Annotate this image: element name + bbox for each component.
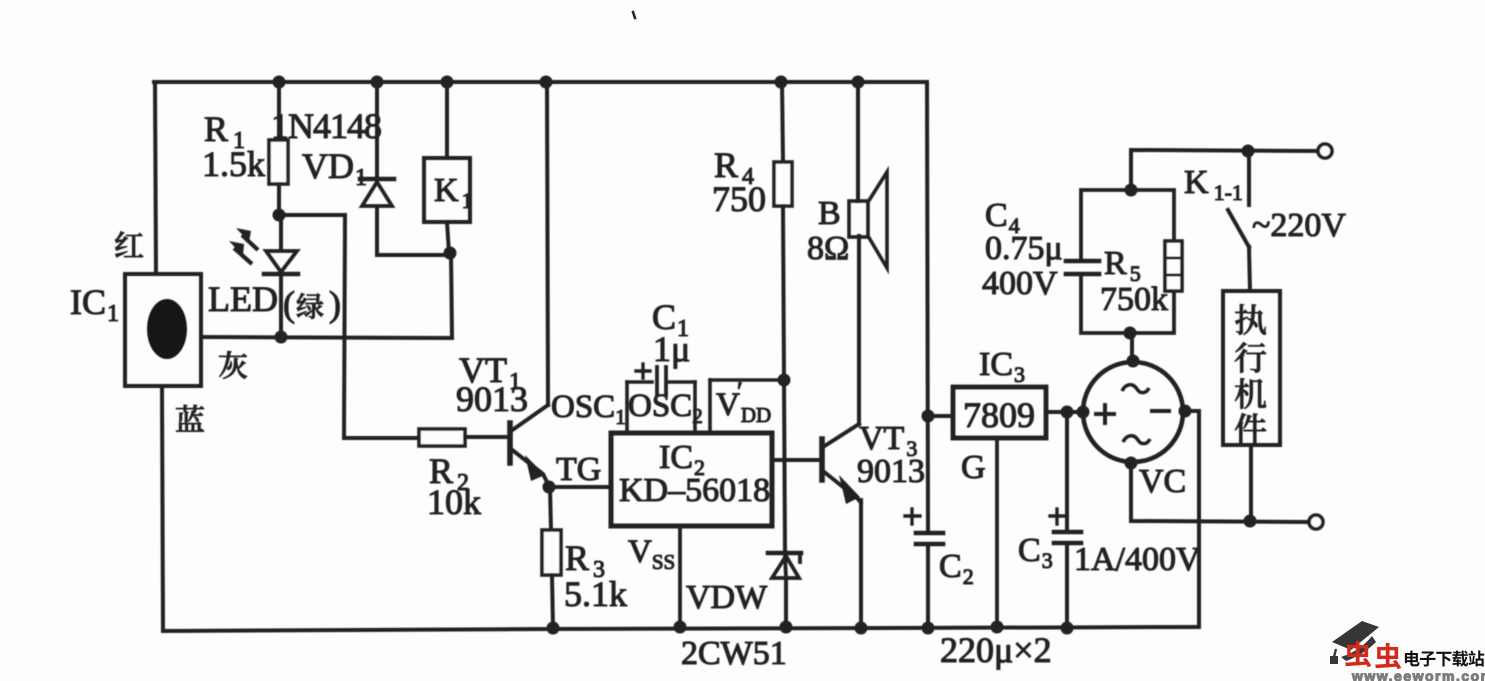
svg-text:7809: 7809 <box>963 395 1035 435</box>
speaker B 8ohm <box>856 82 860 201</box>
capacitor C4 0.75u 400V <box>1081 190 1174 261</box>
logo graduation cap <box>1332 621 1379 650</box>
capacitor C2 <box>916 531 943 536</box>
node C2 on ground bus <box>922 622 935 635</box>
speck top <box>633 12 635 18</box>
node bridge right <box>1179 405 1192 418</box>
svg-text:9013: 9013 <box>857 453 925 490</box>
wire bridge top to C4 network <box>1130 333 1134 362</box>
wire to IC3 input <box>928 414 953 418</box>
regulator IC3 7809 <box>953 387 1046 438</box>
svg-text:400V: 400V <box>982 265 1058 302</box>
label blue wire 蓝 <box>176 405 204 432</box>
resistor R3 5.1k <box>550 487 551 530</box>
node bridge left <box>1077 406 1090 419</box>
wire R1 bottom to VT1-base feeder <box>279 213 345 217</box>
wire IC3 output to bridge <box>1046 410 1083 414</box>
node C2 top / IC3 input <box>922 410 935 423</box>
node actuator output junction <box>1244 515 1257 528</box>
svg-text:2CW51: 2CW51 <box>681 635 787 672</box>
resistor R4 750 <box>782 82 783 162</box>
wire IC1 bottom to ground bus <box>162 386 163 629</box>
node K1 top on bus <box>441 76 454 89</box>
node bridge top <box>1127 355 1140 368</box>
capacitor C1 1u <box>655 367 659 395</box>
node bridge bottom <box>1125 457 1138 470</box>
node zener on ground bus <box>780 621 793 634</box>
node VT1 collector on bus <box>540 76 553 89</box>
terminal mains upper <box>1318 144 1332 158</box>
node VT3 emitter on ground bus <box>855 622 868 635</box>
logo 虫虫 red <box>1345 641 1371 667</box>
node C4 bottom <box>1124 327 1137 340</box>
svg-text:VC: VC <box>1139 463 1186 500</box>
IC1 sensor element <box>147 299 187 359</box>
bridge rectifier VC <box>1083 362 1183 462</box>
svg-text:www.eeworm.com: www.eeworm.com <box>1351 668 1485 681</box>
node C4 top <box>1125 184 1138 197</box>
wire top supply bus <box>154 80 927 84</box>
svg-text:10k: 10k <box>427 482 481 522</box>
svg-text:0.75μ: 0.75μ <box>985 230 1063 267</box>
pin VSS wire <box>678 526 682 627</box>
node VSS on ground bus <box>674 621 687 634</box>
svg-text:OSC2: OSC2 <box>628 388 703 428</box>
svg-text:750k: 750k <box>1100 281 1168 318</box>
svg-text:1.5k: 1.5k <box>202 144 265 184</box>
wire IC2 output to VT3 base <box>772 458 820 462</box>
resistor R1 1.5k <box>277 82 281 140</box>
wire feeder vertical down to R2 row <box>344 215 419 438</box>
wire VT3 collector up to speaker <box>857 236 861 424</box>
node C3 junction <box>1061 406 1074 419</box>
pin G wire <box>995 438 999 627</box>
svg-text:(: ( <box>283 284 295 324</box>
svg-text:): ) <box>329 284 341 324</box>
wire up to K1/VD1 junction <box>451 253 452 338</box>
logo 电子下载站 <box>1405 651 1420 667</box>
svg-text:VDW: VDW <box>686 579 768 616</box>
node R4 top on bus <box>775 76 788 89</box>
diode VD1 1N4148 <box>375 82 379 178</box>
svg-text:LED: LED <box>208 279 278 319</box>
zener diode VDW 2CW51 <box>784 380 785 552</box>
svg-text:KD–56018: KD–56018 <box>619 472 770 509</box>
node TG junction <box>543 481 556 494</box>
wire right vertical bridge minus down to ground bus <box>1197 411 1201 627</box>
svg-text:1μ: 1μ <box>653 329 690 369</box>
wire VT3 emitter down to ground <box>859 500 863 628</box>
wire bridge right to down-corner <box>1185 409 1199 413</box>
relay K1 <box>445 82 449 158</box>
node VD1 top on bus <box>371 76 384 89</box>
node C3 on ground bus <box>1061 622 1074 635</box>
LED light arrows <box>242 235 258 250</box>
LED green diode <box>279 215 283 250</box>
pin OSC1 loop <box>625 382 629 433</box>
wire C4 top to mains switch line <box>1131 150 1317 190</box>
actuator box 执行机件 <box>1223 291 1280 445</box>
op-amp IC2 KD-56018 <box>611 433 772 526</box>
switch K1-1 <box>1247 151 1251 205</box>
node G on ground bus <box>991 621 1004 634</box>
wire bus right corner down to C2 <box>927 82 928 531</box>
svg-text:1A/400V: 1A/400V <box>1074 541 1201 578</box>
svg-text:~220V: ~220V <box>1252 207 1346 244</box>
svg-text:TG: TG <box>556 451 601 488</box>
wire actuator to output junction <box>1249 445 1253 521</box>
node speaker top on bus <box>852 76 865 89</box>
node switch junction <box>1242 145 1255 158</box>
svg-text:5.1k: 5.1k <box>564 574 627 614</box>
svg-text:9013: 9013 <box>456 379 528 419</box>
transistor VT1 9013 <box>507 423 513 463</box>
wire left vertical from bus to IC1 <box>155 82 156 274</box>
resistor R5 750k <box>1165 241 1182 291</box>
node K1/VD1 bottom junction <box>444 247 457 260</box>
transistor VT3 9013 <box>819 439 825 480</box>
svg-text:B: B <box>818 195 841 232</box>
wire gray output from IC1 <box>201 337 452 338</box>
IC1 sensor box <box>125 274 201 386</box>
label gray wire 灰 <box>219 351 247 379</box>
svg-text:1N4148: 1N4148 <box>271 106 381 146</box>
svg-text:220μ×2: 220μ×2 <box>940 630 1052 670</box>
wire bridge bottom output <box>1131 463 1309 522</box>
wire VT1 collector to bus <box>547 82 548 405</box>
svg-text:OSC1: OSC1 <box>551 389 626 429</box>
resistor R2 10k <box>419 429 465 446</box>
label red wire 红 <box>115 231 143 257</box>
svg-text:750: 750 <box>712 179 766 219</box>
wire TG to IC2 <box>549 485 611 489</box>
svg-text:8Ω: 8Ω <box>807 230 849 267</box>
node R1 top on bus <box>273 76 286 89</box>
node R3 on ground bus <box>547 622 560 635</box>
terminal output lower <box>1309 515 1323 529</box>
pin VDD loop <box>708 380 712 433</box>
svg-text:G: G <box>961 449 986 486</box>
node LED cathode on gray wire <box>275 331 288 344</box>
node R1 bottom junction <box>273 209 286 222</box>
svg-text:′: ′ <box>737 377 743 406</box>
node VDD to R4 line <box>778 374 791 387</box>
wire bottom ground bus <box>163 627 1199 631</box>
capacitor C3 <box>1065 412 1069 530</box>
pin OSC2 loop <box>693 382 697 433</box>
